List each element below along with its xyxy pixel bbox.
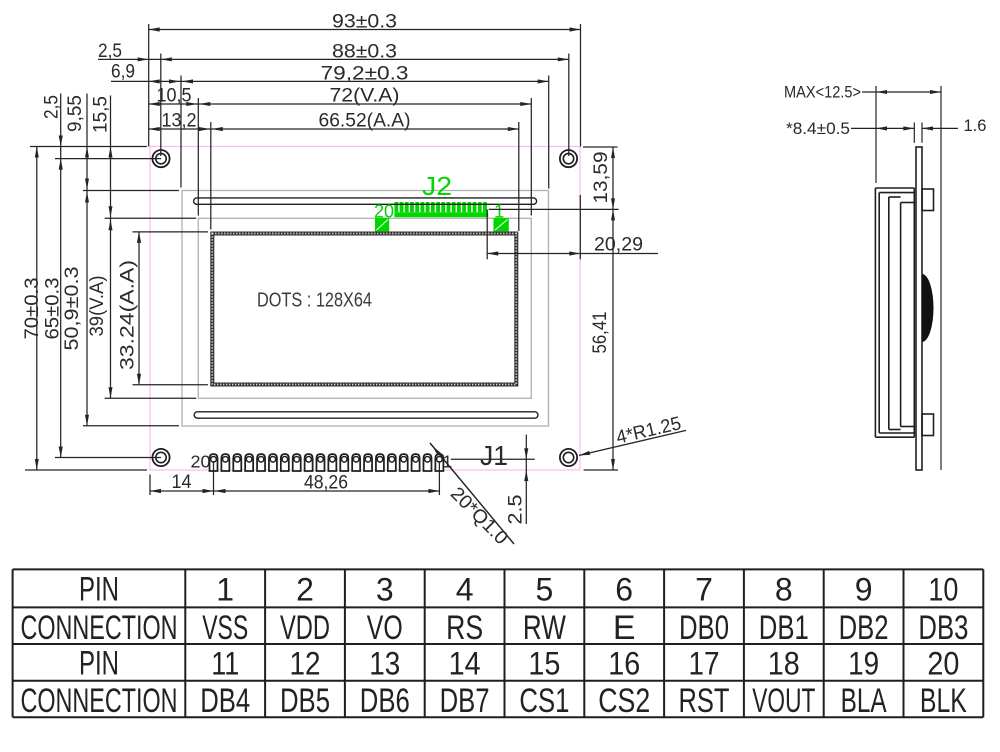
svg-text:DB6: DB6 xyxy=(360,682,410,720)
svg-text:RST: RST xyxy=(679,682,730,720)
J2 pad pin 1 xyxy=(494,218,509,231)
dimension MAX<12.5> xyxy=(784,84,941,471)
svg-text:56,41: 56,41 xyxy=(590,312,611,354)
svg-text:12: 12 xyxy=(290,645,321,681)
svg-text:DB4: DB4 xyxy=(200,682,250,720)
pin connection table xyxy=(13,569,984,717)
svg-text:17: 17 xyxy=(689,645,720,681)
svg-text:14: 14 xyxy=(449,645,481,681)
side view backlight bump (black) xyxy=(922,274,934,342)
J2 pad pin 20 xyxy=(375,218,389,231)
dimension 48,26 xyxy=(214,472,440,494)
svg-text:16: 16 xyxy=(608,645,640,681)
dimension 15,5 / 39(V.A) xyxy=(86,96,196,399)
svg-text:1: 1 xyxy=(216,571,234,607)
svg-text:15,5: 15,5 xyxy=(91,96,112,133)
svg-text:CONNECTION: CONNECTION xyxy=(21,609,178,647)
svg-text:88±0.3: 88±0.3 xyxy=(332,40,397,62)
svg-text:6: 6 xyxy=(615,571,633,607)
bezel frame outline 79.2x50.9 (gray) xyxy=(182,191,549,427)
svg-text:10: 10 xyxy=(928,571,958,607)
svg-text:5: 5 xyxy=(536,571,554,607)
svg-text:70±0.3: 70±0.3 xyxy=(21,278,43,340)
svg-text:93±0.3: 93±0.3 xyxy=(332,11,397,33)
dimension 88±0.3 hole spacing xyxy=(98,40,569,156)
svg-text:BLA: BLA xyxy=(841,682,887,720)
dimension 2,5 / 65±0.3 hole offsets (left) xyxy=(42,94,162,458)
svg-text:6,9: 6,9 xyxy=(111,61,135,82)
dimension 14 xyxy=(150,461,439,495)
J1 pin reference line xyxy=(451,458,535,460)
mounting hole top-left xyxy=(152,150,169,167)
bottom elastomer slot xyxy=(194,412,538,418)
svg-text:33.24(A.A): 33.24(A.A) xyxy=(117,260,139,370)
dimension 1.6 PCB thickness xyxy=(914,117,986,143)
svg-text:20: 20 xyxy=(927,645,959,681)
svg-text:19: 19 xyxy=(848,645,879,681)
dimension 2,5 J1 offset xyxy=(506,435,529,525)
svg-text:PIN: PIN xyxy=(79,644,119,682)
svg-text:DB3: DB3 xyxy=(918,609,968,647)
svg-text:2,5: 2,5 xyxy=(98,41,122,62)
dimension 33.24(A.A) height xyxy=(117,232,208,385)
svg-text:E: E xyxy=(613,609,636,647)
dimension *8.4±0.5 xyxy=(786,120,914,138)
svg-text:VO: VO xyxy=(367,609,403,647)
svg-text:PIN: PIN xyxy=(79,570,119,608)
connector J2 pin comb (green) xyxy=(394,202,488,217)
module outline 93x70 (pink) xyxy=(150,147,580,471)
svg-text:CS1: CS1 xyxy=(519,682,569,720)
svg-text:66.52(A.A): 66.52(A.A) xyxy=(319,110,411,132)
svg-text:1.6: 1.6 xyxy=(964,117,987,135)
svg-text:DB0: DB0 xyxy=(679,609,729,647)
svg-text:J2: J2 xyxy=(422,171,452,201)
table row 3 (PIN) xyxy=(79,644,959,682)
svg-text:CONNECTION: CONNECTION xyxy=(21,682,178,720)
svg-text:BLK: BLK xyxy=(920,682,967,720)
dimension 72(V.A) xyxy=(149,85,532,216)
svg-text:MAX<12.5>: MAX<12.5> xyxy=(784,84,861,102)
svg-text:VOUT: VOUT xyxy=(752,682,815,720)
svg-text:8: 8 xyxy=(775,571,793,607)
svg-text:18: 18 xyxy=(768,645,800,681)
dimension 56,41 xyxy=(584,209,618,470)
dimension 13,59 xyxy=(583,147,618,209)
svg-text:DB2: DB2 xyxy=(839,609,889,647)
svg-text:13,59: 13,59 xyxy=(591,152,612,204)
svg-text:2.5: 2.5 xyxy=(506,495,527,525)
svg-text:DB5: DB5 xyxy=(280,682,330,720)
svg-text:VDD: VDD xyxy=(280,609,330,647)
svg-text:2,5: 2,5 xyxy=(42,95,63,119)
svg-text:9: 9 xyxy=(855,571,873,607)
table row 2 (CONNECTION) xyxy=(21,609,969,647)
svg-text:RW: RW xyxy=(523,609,566,647)
svg-text:50,9±0.3: 50,9±0.3 xyxy=(61,267,83,351)
svg-text:48,26: 48,26 xyxy=(304,472,348,494)
dimension 93±0.3 overall width xyxy=(149,11,581,147)
J2 pin1 reference line xyxy=(489,208,619,210)
svg-text:4: 4 xyxy=(456,571,474,607)
viewing area V.A. 72x39 (gray) xyxy=(198,218,531,398)
table row 4 (CONNECTION) xyxy=(21,682,968,720)
svg-text:79,2±0.3: 79,2±0.3 xyxy=(321,62,409,84)
svg-text:J1: J1 xyxy=(480,440,508,471)
svg-text:20,29: 20,29 xyxy=(594,235,643,256)
svg-text:CS2: CS2 xyxy=(598,682,650,720)
svg-text:2: 2 xyxy=(296,571,314,607)
svg-text:15: 15 xyxy=(528,645,560,681)
svg-text:11: 11 xyxy=(211,645,239,681)
svg-text:9,55: 9,55 xyxy=(65,95,86,132)
svg-text:RS: RS xyxy=(446,609,483,647)
active area A.A. 66.52x33.24 dotted border xyxy=(212,234,516,385)
svg-text:39(V.A): 39(V.A) xyxy=(86,276,108,337)
dimension 9,55 / 50,9±0.3 bezel offsets xyxy=(61,94,179,426)
svg-text:20: 20 xyxy=(191,452,211,472)
mounting hole bottom-left xyxy=(152,449,169,466)
svg-text:1: 1 xyxy=(494,201,504,222)
dimension 79,2±0.3 bezel width xyxy=(111,61,549,188)
mounting hole bottom-right xyxy=(560,449,577,466)
table row 1 (PIN) xyxy=(79,570,958,608)
svg-text:14: 14 xyxy=(172,471,192,493)
svg-text:DB7: DB7 xyxy=(440,682,490,720)
mounting hole top-right xyxy=(560,150,577,167)
callout 20*Ø1.0 pin diameter xyxy=(430,443,514,549)
side view bezel frame cross-section xyxy=(875,188,914,437)
side view top mounting tab xyxy=(922,189,934,211)
top elastomer slot xyxy=(194,198,537,204)
callout 4*R1.25 corner radius xyxy=(579,413,686,455)
svg-text:7: 7 xyxy=(695,571,713,607)
svg-text:20: 20 xyxy=(374,200,394,221)
svg-text:*8.4±0.5: *8.4±0.5 xyxy=(786,120,850,138)
svg-text:10,5: 10,5 xyxy=(157,86,192,107)
svg-text:13,2: 13,2 xyxy=(162,111,197,132)
svg-text:72(V.A): 72(V.A) xyxy=(330,85,400,107)
side view PCB xyxy=(916,147,922,470)
svg-text:DB1: DB1 xyxy=(759,609,809,647)
svg-text:3: 3 xyxy=(376,571,394,607)
dimension 70±0.3 overall height xyxy=(21,147,147,471)
side view bottom mounting tab xyxy=(922,414,934,436)
dimension 66.52(A.A) xyxy=(149,110,519,232)
svg-text:13: 13 xyxy=(369,645,400,681)
svg-text:DOTS : 128X64: DOTS : 128X64 xyxy=(257,290,372,312)
svg-text:VSS: VSS xyxy=(202,609,248,647)
connector J1 pin row xyxy=(210,454,444,471)
dimension 20,29 xyxy=(487,195,658,259)
